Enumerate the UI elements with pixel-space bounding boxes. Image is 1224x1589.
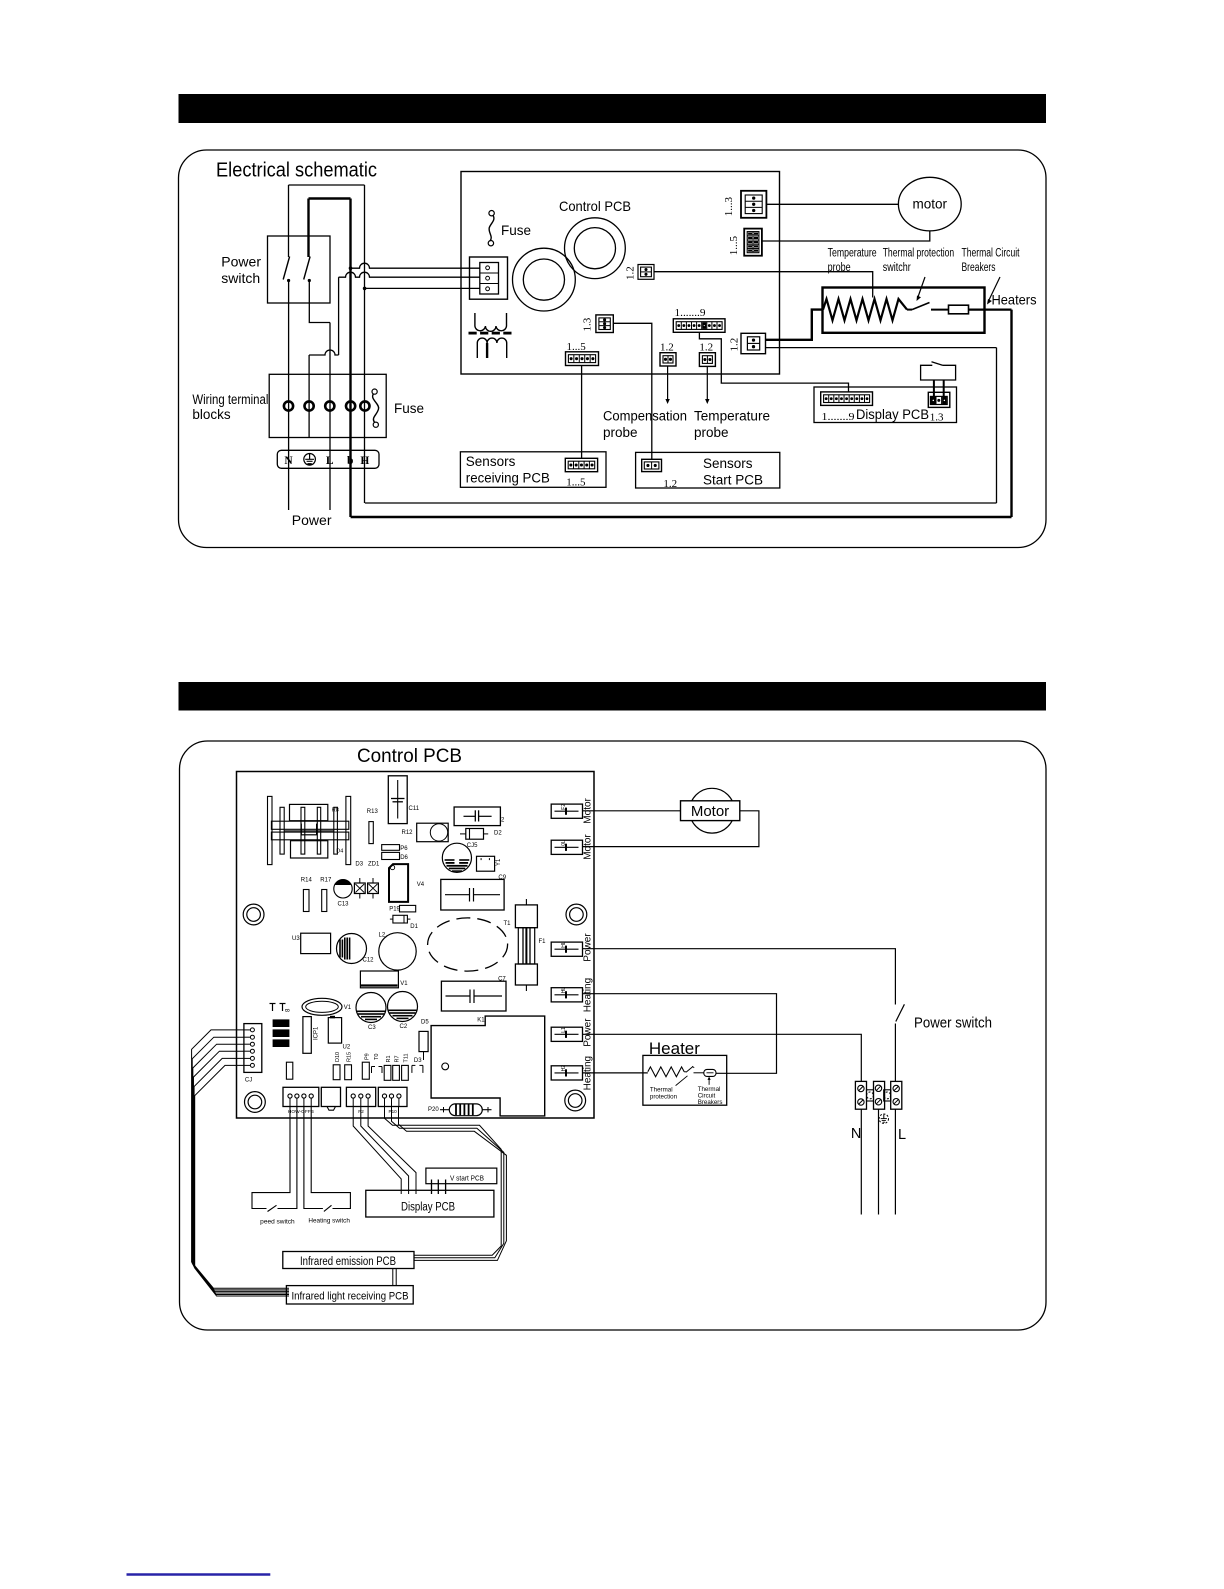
svg-text:CJ5: CJ5 (467, 843, 478, 849)
svg-text:H: H (360, 455, 369, 467)
svg-text:R7: R7 (395, 1055, 401, 1062)
connector HOW-OFFB (283, 1087, 319, 1106)
pad 3 (273, 1039, 290, 1047)
svg-text:L2: L2 (379, 933, 386, 939)
top black title bar (179, 94, 1047, 123)
wire CJ pin 2 harness (192, 1037, 289, 1290)
wire1 y268 to connector pin1 (hop over x364.5) (349, 266, 353, 270)
svg-text:D3: D3 (414, 1058, 422, 1064)
heating switch (304, 1107, 323, 1209)
wire: top loop outer (289, 184, 365, 186)
wire: inner bold rect top (309, 197, 351, 199)
edge connector Power (551, 942, 582, 956)
misc rect (286, 1062, 292, 1079)
svg-text:P9: P9 (364, 1053, 370, 1060)
capacitor CJ5 (442, 843, 471, 872)
wire 1.2conn to heater middle (654, 272, 873, 298)
svg-text:Control PCB: Control PCB (357, 745, 462, 767)
svg-text:U3: U3 (292, 936, 300, 942)
svg-text:Heating switch: Heating switch (308, 1218, 350, 1225)
heater resistor zigzag (823, 299, 907, 320)
svg-text:Display PCB: Display PCB (856, 407, 929, 422)
svg-text:D5: D5 (421, 1020, 429, 1026)
heatsink assembly (268, 796, 273, 864)
svg-text:C3: C3 (368, 1025, 376, 1031)
svg-text:Start PCB: Start PCB (703, 473, 763, 488)
wire P2 pin 2 to display (361, 1107, 409, 1195)
svg-text:1.2: 1.2 (663, 478, 677, 490)
Infrared light receiving PCB (286, 1286, 413, 1304)
wire 9pin to display PCB (699, 332, 848, 392)
svg-text:1...3: 1...3 (723, 197, 735, 217)
resistor T11 (402, 1065, 409, 1080)
CJ pin 3 (244, 1043, 251, 1045)
svg-text:1.2: 1.2 (660, 342, 674, 354)
terminal screw 6 (893, 1099, 899, 1105)
svg-text:C11: C11 (409, 806, 420, 812)
PCB board outline (237, 772, 595, 1119)
wire CJ pin 4 harness (193, 1051, 289, 1293)
terminal screw 3 (875, 1085, 881, 1091)
svg-text:ZD1: ZD1 (368, 862, 380, 868)
N-earth-L-b-H label box (277, 450, 379, 468)
wire P10 pin 1 to emission PCB (385, 1107, 502, 1256)
control PCB box (461, 172, 780, 375)
wiring terminal blocks box (269, 374, 386, 437)
svg-text:D10: D10 (335, 1052, 341, 1062)
1.3 connector (596, 315, 613, 333)
thin wire pin2 right (766, 347, 997, 349)
svg-text:Temperature: Temperature (828, 248, 877, 260)
svg-text:Power: Power (292, 512, 332, 528)
resistor R15 (345, 1065, 352, 1080)
C11 (388, 776, 407, 824)
svg-text:Fuse: Fuse (394, 401, 424, 416)
wire P10 pin 2 to emission PCB (392, 1107, 504, 1258)
U2 (328, 1018, 341, 1044)
motor circuit (583, 810, 681, 812)
power switch wire (583, 949, 896, 1005)
arrow thermal protection (918, 277, 925, 298)
wire V-start pin 1 (431, 1180, 433, 1195)
T1 big dashed (428, 918, 508, 971)
svg-text:1...5: 1...5 (566, 477, 586, 489)
terminal block 1 (855, 1081, 866, 1109)
connector P10 (378, 1087, 407, 1106)
terminal screw 5 (893, 1085, 899, 1091)
V4 regulator (389, 864, 408, 902)
L2 (379, 933, 416, 970)
svg-text:U2: U2 (343, 1045, 351, 1051)
wire: earth terminal up-link (308, 355, 310, 438)
edge connector Motor (551, 804, 582, 818)
svg-text:Power: Power (221, 254, 261, 270)
arrow circuit breakers (989, 277, 1001, 301)
terminal ring 3 (325, 401, 334, 410)
terminal ring 2 (305, 401, 314, 410)
wire V-start pin 3 (445, 1180, 447, 1195)
svg-text:Heating: Heating (582, 978, 593, 1012)
resistor R1 (384, 1065, 391, 1080)
svg-text:switchr: switchr (883, 262, 911, 274)
CJ pin 6 (244, 1064, 251, 1066)
svg-text:Y1: Y1 (496, 858, 502, 866)
svg-text:F2: F2 (561, 804, 567, 810)
heating wire 2 (to heater left) (583, 1072, 648, 1074)
svg-text:Display PCB: Display PCB (401, 1201, 455, 1213)
mounting hole 1 (243, 904, 264, 925)
wire: horizontal link y355 w/ hop over x330 (309, 350, 339, 355)
svg-text:R12: R12 (402, 830, 414, 836)
svg-text:1.3: 1.3 (582, 317, 594, 331)
mounting hole 4 (565, 1090, 586, 1111)
switch S1 blade (283, 257, 289, 280)
wire to motor (766, 203, 898, 205)
terminal screw 2 (858, 1099, 864, 1105)
wire V-start pin 2 (437, 1180, 439, 1195)
svg-text:H2: H2 (561, 1065, 567, 1072)
svg-text:N: N (851, 1126, 861, 1142)
wire: S1 bottom to terminal N (288, 281, 290, 511)
svg-text:L: L (326, 455, 334, 467)
svg-text:HL: HL (561, 987, 567, 994)
wires below blocks (860, 1109, 862, 1214)
svg-text:Breakers: Breakers (698, 1099, 723, 1106)
svg-text:D1: D1 (410, 924, 418, 930)
fuse (terminal block) (372, 389, 377, 394)
svg-text:V4: V4 (417, 882, 425, 888)
svg-text:probe: probe (603, 425, 638, 440)
svg-text:T11: T11 (404, 1053, 410, 1062)
mounting hole 2 (566, 904, 587, 925)
CJ pin 1 (244, 1029, 251, 1031)
wire down w/ arrow (temperature) (706, 366, 708, 401)
svg-text:CJ: CJ (245, 1078, 252, 1084)
diagram 1 rounded border (179, 150, 1047, 548)
svg-text:Wiring terminal: Wiring terminal (192, 392, 268, 407)
wire: riser x338.6 (338, 277, 340, 355)
svg-text:peed switch: peed switch (260, 1219, 295, 1226)
thermal switch (907, 309, 912, 311)
thin vertical x364.5 down to y503 (364, 185, 366, 503)
speed switch (252, 1107, 290, 1209)
D1 (393, 915, 408, 923)
svg-text:Control PCB: Control PCB (559, 198, 631, 214)
svg-text:C13: C13 (338, 902, 350, 908)
mounting hole 3 (245, 1092, 266, 1113)
svg-text:1.2: 1.2 (699, 342, 713, 354)
fuse (control) (489, 211, 494, 216)
svg-text:HL: HL (561, 941, 567, 948)
svg-text:probe: probe (694, 425, 729, 440)
svg-text:C9: C9 (498, 875, 506, 881)
second black title bar (179, 682, 1047, 711)
sensors receiving PCB (460, 452, 606, 488)
edge connector Heating (551, 988, 582, 1002)
svg-text:R8: R8 (332, 807, 339, 813)
power wire (to N block) (583, 1034, 862, 1081)
connector (unlabeled) (321, 1087, 340, 1106)
svg-text:protection: protection (650, 1094, 678, 1101)
svg-text:Electrical schematic: Electrical schematic (216, 159, 377, 182)
svg-text:Infrared emission PCB: Infrared emission PCB (300, 1256, 396, 1268)
wire: S2 jog to terminal 3 (309, 281, 330, 323)
svg-text:1.3: 1.3 (930, 412, 944, 424)
terminal block 3 (891, 1081, 902, 1109)
wire down w/ arrow (compensation) (667, 366, 669, 401)
sensors start PCB (636, 452, 780, 488)
svg-text:R13: R13 (367, 809, 379, 815)
wire2 y277.2 (hops over x350.5 and x364.5) (339, 272, 480, 277)
svg-text:D2: D2 (494, 830, 502, 836)
heating wire 1 (to breaker) (583, 994, 777, 1074)
svg-text:Power: Power (582, 933, 593, 962)
toroid 1 (513, 248, 576, 311)
wire CJ pin 3 harness (193, 1044, 289, 1291)
Infrared emission PCB (283, 1252, 414, 1269)
svg-text:D6: D6 (400, 855, 408, 861)
connector P2 (346, 1087, 375, 1106)
svg-text:R15: R15 (347, 1052, 353, 1062)
3-pin input connector (470, 257, 508, 299)
earth symbol in label box (304, 454, 316, 466)
svg-text:L: L (898, 1127, 906, 1143)
thermal breaker (931, 309, 949, 311)
svg-text:R14: R14 (301, 878, 313, 884)
edge connector Heating (551, 1066, 582, 1080)
transformer (474, 313, 476, 326)
svg-text:blocks: blocks (192, 407, 231, 422)
svg-text:Sensors: Sensors (703, 456, 753, 471)
terminal screw 1 (858, 1085, 864, 1091)
V start PCB (426, 1168, 497, 1184)
wire3 y288.4 (363, 287, 367, 291)
resistor D10 (333, 1065, 340, 1080)
svg-text:P10: P10 (389, 1109, 398, 1114)
display 1.3 connector (928, 392, 950, 407)
K1 relay (431, 1016, 545, 1116)
C9 big cap (441, 879, 504, 910)
terminal ring 4 (346, 401, 355, 410)
svg-text:motor: motor (913, 197, 948, 212)
terminal ring 5 (360, 401, 369, 410)
svg-text:Heaters: Heaters (992, 292, 1037, 308)
motor (898, 177, 961, 231)
pad 1 (273, 1019, 290, 1027)
transistor Q2 (372, 878, 374, 883)
svg-text:C7: C7 (498, 977, 506, 983)
resistor R7 (393, 1065, 400, 1080)
svg-text:Temperature: Temperature (694, 409, 770, 424)
svg-text:1...5: 1...5 (728, 236, 740, 256)
svg-text:T1: T1 (504, 921, 512, 927)
wire P2 pin 1 to display (353, 1107, 401, 1195)
svg-text:D3: D3 (355, 862, 363, 868)
jumper T marks (270, 1003, 276, 1005)
svg-text:0L: 0L (561, 840, 567, 846)
svg-text:V1: V1 (400, 981, 408, 987)
CJ pin 4 (244, 1050, 251, 1052)
bold feed: inner rect right vertical down to y517 (349, 199, 351, 518)
svg-text:P19: P19 (389, 907, 400, 913)
svg-text:Infrared light receiving PCB: Infrared light receiving PCB (292, 1291, 409, 1303)
terminal ring 1 (284, 401, 293, 410)
svg-text:Compensation: Compensation (603, 409, 687, 424)
svg-text:Power switch: Power switch (914, 1016, 992, 1032)
svg-text:P20: P20 (428, 1107, 439, 1113)
svg-text:Thermal protection: Thermal protection (883, 248, 955, 260)
svg-text:R1: R1 (386, 1055, 392, 1062)
bottom return wires (365, 502, 997, 504)
svg-text:probe: probe (828, 262, 851, 274)
capacitor C2 (388, 992, 418, 1022)
bold wire pin1 to heater left (766, 310, 824, 340)
heaters box (823, 288, 985, 333)
svg-text:1.2: 1.2 (729, 338, 741, 352)
svg-text:Breakers: Breakers (962, 262, 996, 274)
capacitor T2 (454, 807, 500, 826)
svg-text:Power: Power (582, 1018, 593, 1047)
transistor Q1 (359, 878, 361, 883)
svg-text:V start PCB: V start PCB (450, 1175, 484, 1182)
ICP1 (303, 1017, 311, 1054)
svg-text:F1: F1 (539, 939, 547, 945)
wire 1.3conn to start PCB (613, 323, 652, 459)
wire CJ pin 1 harness (192, 1030, 289, 1288)
left connector CJ (244, 1024, 262, 1073)
U3 (301, 933, 331, 953)
F1 fuse (525, 899, 527, 905)
svg-text:receiving PCB: receiving PCB (466, 471, 550, 486)
Display PCB (366, 1190, 494, 1217)
svg-text:P6: P6 (400, 846, 408, 852)
svg-text:T0: T0 (374, 1054, 380, 1060)
C7 big cap (441, 981, 506, 1011)
wire P2 pin 3 to display (368, 1107, 416, 1195)
1...3 connector (motor) (741, 191, 766, 218)
svg-text:b: b (347, 455, 353, 467)
svg-text:C12: C12 (363, 958, 375, 964)
svg-text:D4: D4 (336, 849, 343, 855)
wire P10 pin 3 to emission PCB (399, 1107, 507, 1261)
P6 D6 (382, 845, 400, 851)
svg-text:Sensors: Sensors (466, 454, 516, 469)
earth symbol (879, 1114, 888, 1123)
svg-text:C2: C2 (400, 1024, 408, 1030)
svg-text:K1: K1 (477, 1018, 485, 1024)
CJ pin 2 (244, 1036, 251, 1038)
svg-text:1.......9: 1.......9 (675, 307, 707, 319)
edge connector Motor (551, 840, 582, 854)
terminal block 2 (874, 1081, 885, 1109)
svg-text:Fuse: Fuse (501, 223, 531, 238)
power switch box (268, 236, 331, 303)
diode D2 (466, 829, 484, 840)
display PCB box (814, 387, 957, 423)
CJ pin 5 (244, 1057, 251, 1059)
svg-text:V1: V1 (344, 1005, 352, 1011)
wire CJ pin 6 harness (195, 1065, 289, 1296)
svg-text:N: N (284, 455, 293, 467)
key switch above display (921, 365, 956, 380)
V1 crystal (302, 998, 342, 1015)
C13 (334, 880, 352, 898)
wire motor bottom to 1...5 conn (762, 231, 930, 241)
1...5 connector (motor 2) (744, 229, 762, 256)
svg-text:ICP1: ICP1 (314, 1026, 320, 1040)
1.2 connector (to temp probe point) (638, 265, 654, 280)
terminal screw 4 (875, 1099, 881, 1105)
capacitor C3 (356, 993, 386, 1023)
switch S2 blade (304, 257, 310, 280)
wire 5pin down to receiving PCB (581, 366, 583, 459)
crystal Y1 (477, 856, 495, 871)
svg-text:L1: L1 (561, 1027, 567, 1033)
pad 2 (273, 1029, 290, 1037)
wire CJ pin 5 harness (194, 1058, 289, 1294)
svg-text:Thermal Circuit: Thermal Circuit (962, 248, 1021, 260)
svg-text:Motor: Motor (691, 803, 729, 820)
diagram 2 rounded border (180, 741, 1047, 1330)
svg-text:switch: switch (221, 270, 260, 286)
toroid 2 (565, 218, 626, 279)
V1 block (360, 971, 398, 988)
svg-text:1.......9: 1.......9 (822, 411, 856, 423)
svg-text:Thermal: Thermal (650, 1087, 673, 1094)
footer blue line (127, 1573, 271, 1576)
svg-text:HOW-OFFB: HOW-OFFB (288, 1109, 314, 1114)
C12 (337, 934, 367, 964)
svg-text:R17: R17 (320, 878, 332, 884)
edge connector Power (551, 1027, 582, 1041)
svg-text:1.2: 1.2 (625, 266, 637, 280)
1.2 vertical connector (heater feed) (741, 333, 766, 353)
